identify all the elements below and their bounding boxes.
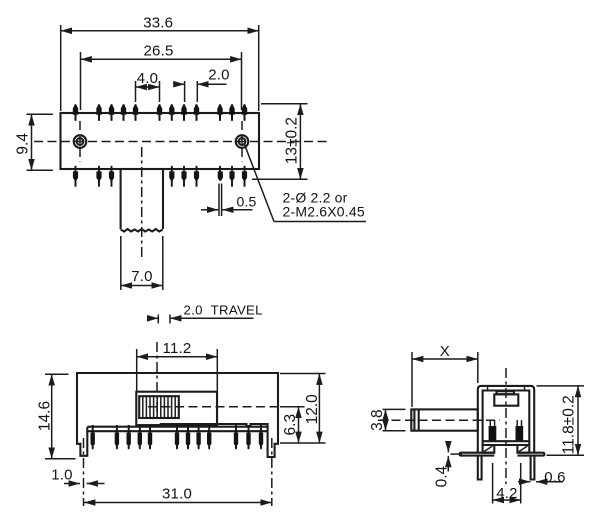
vertical centerline (side) — [505, 368, 507, 484]
dim 11.8±0.2 — [537, 385, 585, 387]
hatched tab right — [517, 445, 529, 453]
top view body outline — [61, 113, 260, 169]
side body inner wall — [483, 391, 530, 446]
foot centerline dashed right — [271, 438, 273, 506]
dim 7.0 — [120, 236, 122, 290]
dim 11.2 — [136, 349, 138, 392]
flange right — [517, 453, 544, 456]
svg-text:2-M2.6X0.45: 2-M2.6X0.45 — [283, 204, 365, 220]
vertical centerline shaft — [141, 147, 143, 257]
mounting hole right — [236, 135, 249, 148]
svg-text:26.5: 26.5 — [144, 43, 174, 60]
base plate lines — [483, 440, 530, 442]
dim 4.2 — [492, 463, 494, 504]
top slot — [497, 391, 515, 394]
front view pins — [91, 425, 264, 449]
svg-text:11.8±0.2: 11.8±0.2 — [560, 395, 577, 454]
dim 0.4 — [447, 442, 449, 453]
shaft (side view) — [411, 409, 478, 430]
actuator shaft (top view, broken) — [120, 169, 122, 229]
dim 2.0 TRAVEL — [157, 315, 159, 324]
hole note leader — [245, 145, 275, 222]
svg-text:12.0: 12.0 — [304, 394, 321, 425]
bottom row pins — [73, 166, 247, 187]
dim 1.0 — [64, 483, 80, 485]
dim 33.6 — [60, 25, 62, 111]
svg-text:2.0 TRAVEL: 2.0 TRAVEL — [184, 303, 263, 318]
horizontal centerline (top view) — [34, 141, 331, 143]
thin pin profile (0.5 wide) — [218, 184, 220, 217]
front knob vertical centerline — [156, 342, 158, 420]
svg-text:3.8: 3.8 — [369, 409, 386, 431]
dim 4.0 — [135, 81, 137, 102]
hatched tab left — [483, 445, 495, 453]
dim X — [411, 352, 413, 407]
mounting hole left — [74, 135, 87, 148]
dim 2.0 (top) — [184, 81, 186, 102]
svg-text:11.2: 11.2 — [163, 340, 192, 357]
leg left — [478, 456, 482, 480]
vertical centerline left hole — [79, 121, 81, 162]
front centerline horizontal — [148, 406, 281, 408]
side pins — [489, 420, 524, 441]
foot centerline dashed left — [83, 438, 85, 506]
dim 13±0.2 — [261, 103, 308, 105]
svg-text:14.6: 14.6 — [36, 401, 53, 431]
slider knob serrated — [139, 396, 179, 418]
svg-text:31.0: 31.0 — [162, 486, 192, 503]
dim 3.8 — [383, 408, 406, 410]
raised rail segment A — [161, 424, 247, 427]
flange left — [460, 453, 495, 456]
svg-text:4.0: 4.0 — [137, 70, 158, 87]
svg-text:9.4: 9.4 — [14, 133, 31, 155]
svg-text:4.2: 4.2 — [496, 485, 517, 502]
shaft centerline (side) — [378, 419, 500, 421]
svg-text:0.4: 0.4 — [434, 465, 451, 487]
vertical centerline right hole — [241, 121, 243, 162]
svg-text:2.0: 2.0 — [208, 67, 229, 84]
leg right — [531, 456, 535, 480]
dim 26.5 — [80, 52, 82, 110]
svg-text:0.6: 0.6 — [544, 469, 565, 486]
raised rail segment B — [251, 424, 268, 427]
dim 31.0 — [84, 502, 272, 504]
dim 9.4 — [27, 113, 54, 115]
dim 12.0 — [280, 373, 326, 375]
svg-text:0.5: 0.5 — [236, 194, 256, 210]
svg-text:7.0: 7.0 — [131, 268, 152, 285]
dim 14.6 — [45, 373, 69, 375]
dim 0.6 — [518, 481, 530, 483]
svg-text:6.3: 6.3 — [282, 414, 299, 436]
svg-text:33.6: 33.6 — [143, 15, 173, 32]
svg-text:13±0.2: 13±0.2 — [284, 117, 301, 164]
dim 6.3 — [280, 406, 305, 408]
dim 0.5 — [201, 209, 218, 211]
window opening — [136, 392, 217, 425]
svg-text:1.0: 1.0 — [51, 467, 72, 484]
actuator cross-section — [494, 394, 518, 405]
top row pins — [73, 104, 247, 121]
top corner ticks — [487, 386, 489, 391]
svg-text:X: X — [440, 343, 450, 360]
side body outer outline — [478, 386, 534, 453]
front body outline left — [77, 373, 278, 457]
front body top + rail lines — [87, 426, 267, 428]
